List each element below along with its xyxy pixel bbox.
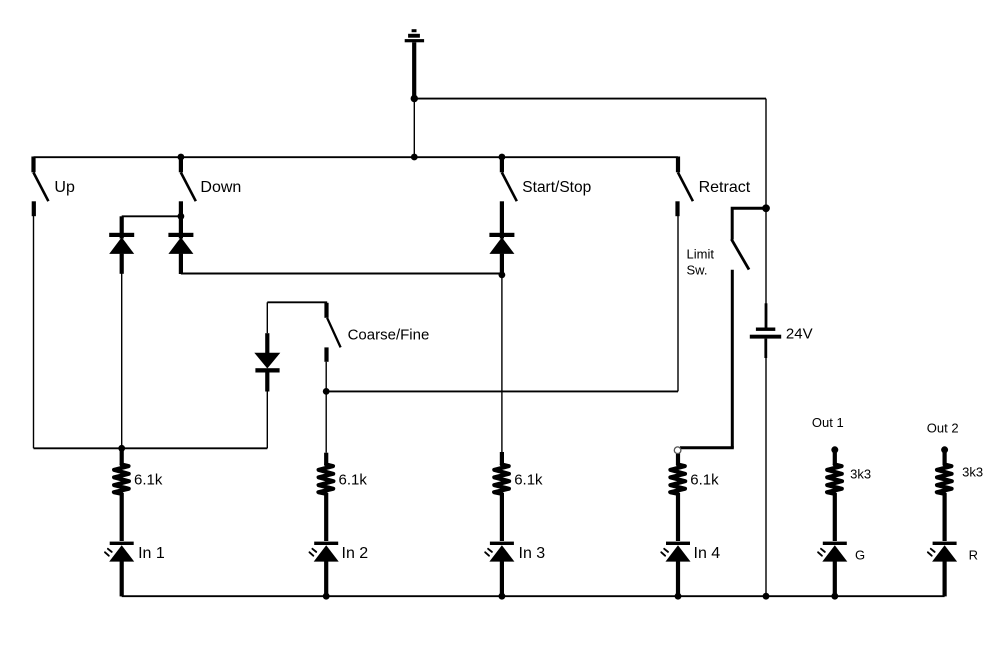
svg-text:In 3: In 3: [519, 545, 546, 562]
svg-text:Retract: Retract: [699, 179, 751, 196]
svg-text:6.1k: 6.1k: [339, 472, 368, 489]
svg-text:In 4: In 4: [694, 545, 721, 562]
svg-text:R: R: [969, 547, 978, 562]
svg-text:6.1k: 6.1k: [514, 472, 543, 489]
svg-text:3k3: 3k3: [850, 467, 871, 482]
svg-text:G: G: [855, 547, 865, 562]
svg-text:6.1k: 6.1k: [690, 472, 719, 489]
svg-text:3k3: 3k3: [962, 465, 983, 480]
svg-text:Start/Stop: Start/Stop: [522, 179, 591, 196]
svg-text:24V: 24V: [786, 326, 813, 343]
svg-text:6.1k: 6.1k: [134, 472, 163, 489]
svg-text:Out 1: Out 1: [812, 415, 844, 430]
svg-text:In 1: In 1: [138, 545, 165, 562]
svg-text:Out 2: Out 2: [927, 421, 959, 436]
svg-text:Sw.: Sw.: [687, 263, 708, 278]
svg-text:Up: Up: [54, 179, 75, 196]
svg-text:Limit: Limit: [687, 246, 715, 261]
svg-text:Coarse/Fine: Coarse/Fine: [348, 326, 430, 343]
svg-text:In 2: In 2: [342, 545, 369, 562]
svg-text:Down: Down: [200, 179, 241, 196]
